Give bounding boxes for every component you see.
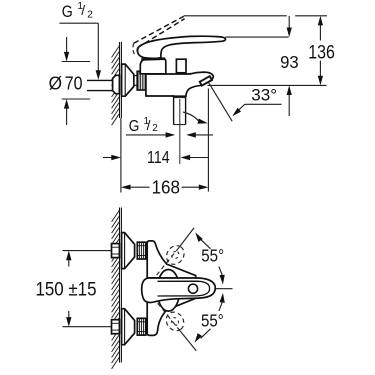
svg-text:55°: 55° <box>201 311 224 331</box>
svg-text:70: 70 <box>65 74 83 94</box>
svg-text:G: G <box>129 118 140 135</box>
svg-text:2: 2 <box>152 123 158 134</box>
svg-text:55°: 55° <box>201 245 224 265</box>
svg-text:136: 136 <box>308 42 335 63</box>
svg-text:G: G <box>62 3 73 21</box>
svg-text:114: 114 <box>147 147 170 167</box>
svg-text:2: 2 <box>87 10 93 21</box>
svg-text:/: / <box>81 2 85 18</box>
svg-text:Ø: Ø <box>49 74 62 94</box>
svg-text:150 ±15: 150 ±15 <box>36 279 97 301</box>
svg-text:93: 93 <box>280 52 299 72</box>
svg-text:33°: 33° <box>251 87 277 105</box>
svg-text:/: / <box>147 118 151 133</box>
svg-text:168: 168 <box>152 178 180 198</box>
